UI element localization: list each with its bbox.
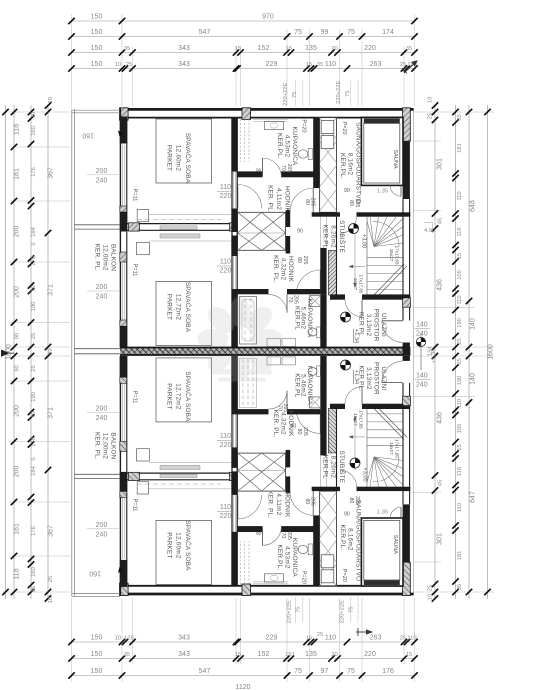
stair-side hatched wall bbox=[328, 251, 336, 296]
balcony bbox=[71, 110, 73, 597]
svg-text:SPAVAĆA SOBA: SPAVAĆA SOBA bbox=[184, 520, 193, 571]
svg-text:90: 90 bbox=[297, 229, 303, 235]
svg-text:220+22E: 220+22E bbox=[283, 82, 289, 106]
svg-text:10: 10 bbox=[31, 112, 37, 118]
left wall double lines bbox=[119, 108, 121, 347]
level diamond marker bbox=[416, 333, 425, 370]
svg-text:97: 97 bbox=[321, 668, 329, 675]
svg-text:10: 10 bbox=[115, 636, 121, 642]
svg-text:KER.PL: KER.PL bbox=[322, 225, 329, 249]
svg-text:135: 135 bbox=[305, 45, 317, 52]
svg-text:135: 135 bbox=[305, 651, 317, 658]
svg-text:25: 25 bbox=[428, 585, 434, 591]
svg-text:90: 90 bbox=[256, 531, 262, 537]
stair stringer bbox=[366, 217, 368, 294]
col2 x=31 : opening segments bbox=[30, 105, 32, 599]
svg-text:343: 343 bbox=[178, 45, 190, 52]
svg-text:220: 220 bbox=[220, 268, 232, 275]
svg-text:10: 10 bbox=[428, 97, 434, 103]
svg-text:P=11: P=11 bbox=[132, 499, 138, 512]
svg-text:P=20: P=20 bbox=[301, 571, 307, 584]
outer top wall bbox=[120, 108, 414, 111]
svg-text:343: 343 bbox=[178, 635, 190, 642]
svg-text:4,53m2: 4,53m2 bbox=[284, 546, 291, 569]
svg-text:174: 174 bbox=[382, 29, 394, 36]
svg-text:220: 220 bbox=[220, 442, 232, 449]
svg-text:15: 15 bbox=[286, 46, 292, 52]
svg-text:110: 110 bbox=[325, 61, 336, 68]
svg-text:17x17,65: 17x17,65 bbox=[359, 410, 364, 429]
right outer insulation line bbox=[413, 108, 415, 596]
row 1 : y=21 bbox=[72, 20, 415, 22]
svg-text:436: 436 bbox=[437, 279, 444, 291]
svg-text:KER.PL.: KER.PL. bbox=[276, 544, 283, 570]
svg-text:150: 150 bbox=[91, 45, 103, 52]
svg-text:181: 181 bbox=[457, 551, 463, 561]
svg-text:140: 140 bbox=[470, 318, 477, 330]
bedroom2 door arc (from corridor1) bbox=[237, 185, 239, 209]
svg-text:90: 90 bbox=[344, 188, 350, 194]
svg-text:80: 80 bbox=[348, 200, 354, 206]
svg-text:10: 10 bbox=[31, 411, 37, 417]
svg-text:KER.PL.: KER.PL. bbox=[339, 524, 346, 550]
svg-text:4,32m2: 4,32m2 bbox=[280, 412, 287, 435]
svg-text:220: 220 bbox=[220, 193, 232, 200]
svg-text:35: 35 bbox=[124, 652, 130, 658]
svg-text:P=11: P=11 bbox=[132, 264, 138, 277]
closet strip x=319.6-336.5 bbox=[320, 118, 337, 213]
svg-text:4,32m2: 4,32m2 bbox=[280, 258, 287, 281]
svg-text:17x17,65: 17x17,65 bbox=[359, 275, 364, 294]
svg-text:205: 205 bbox=[286, 164, 292, 173]
svg-text:648: 648 bbox=[470, 200, 477, 212]
svg-text:15: 15 bbox=[306, 636, 312, 642]
svg-text:8,26m2: 8,26m2 bbox=[330, 225, 337, 248]
walk line + arrows + break line bbox=[354, 233, 356, 286]
svg-text:205: 205 bbox=[302, 256, 308, 265]
col3 x=48 : big segments bbox=[47, 105, 49, 599]
svg-text:16x27: 16x27 bbox=[389, 442, 394, 455]
svg-text:HODNIK: HODNIK bbox=[284, 186, 291, 213]
extension verticals bbox=[71, 598, 73, 682]
svg-text:KER. PL.: KER. PL. bbox=[272, 410, 279, 438]
svg-text:4,53m2: 4,53m2 bbox=[284, 135, 291, 158]
svg-text:160: 160 bbox=[31, 567, 37, 577]
svg-text:301: 301 bbox=[437, 158, 444, 170]
svg-text:263: 263 bbox=[370, 61, 382, 68]
svg-text:17x17,65: 17x17,65 bbox=[395, 439, 400, 458]
svg-text:45: 45 bbox=[438, 218, 444, 224]
svg-text:184: 184 bbox=[31, 465, 37, 475]
sauna door bbox=[390, 185, 401, 196]
svg-text:205: 205 bbox=[310, 198, 316, 207]
bedroom divider wall bbox=[127, 223, 237, 225]
svg-text:1600: 1600 bbox=[488, 344, 495, 360]
svg-text:ULAZNI: ULAZNI bbox=[380, 313, 387, 337]
window glazing lines (left wall) bbox=[121, 145, 123, 207]
svg-text:110: 110 bbox=[220, 504, 231, 511]
svg-text:10: 10 bbox=[428, 594, 434, 600]
svg-text:KER.PL.: KER.PL. bbox=[276, 133, 283, 159]
svg-text:15: 15 bbox=[457, 253, 463, 259]
svg-text:25: 25 bbox=[457, 358, 463, 364]
svg-text:116: 116 bbox=[457, 227, 463, 236]
svg-text:301: 301 bbox=[437, 533, 444, 545]
interior window lines in that wall bbox=[232, 172, 234, 209]
svg-text:16x27: 16x27 bbox=[353, 413, 358, 426]
window leader lines on balcony bbox=[87, 174, 120, 176]
svg-text:5: 5 bbox=[31, 457, 37, 460]
svg-text:20: 20 bbox=[331, 652, 337, 658]
svg-text:436: 436 bbox=[437, 412, 444, 424]
bathroom1 bottom wall bbox=[238, 171, 263, 177]
svg-text:125: 125 bbox=[124, 636, 134, 642]
svg-text:181: 181 bbox=[457, 143, 463, 153]
svg-text:110: 110 bbox=[457, 503, 463, 512]
svg-text:190: 190 bbox=[31, 392, 37, 402]
svg-text:35: 35 bbox=[124, 46, 130, 52]
svg-text:25: 25 bbox=[457, 338, 463, 344]
svg-text:152: 152 bbox=[258, 651, 270, 658]
svg-text:80: 80 bbox=[296, 429, 302, 435]
svg-text:35: 35 bbox=[406, 46, 412, 52]
svg-text:343: 343 bbox=[178, 61, 190, 68]
corridor2 bottom wall bbox=[238, 289, 269, 294]
row 3 : y=52.5 bbox=[72, 52, 415, 54]
svg-text:16x27: 16x27 bbox=[389, 249, 394, 262]
svg-text:10: 10 bbox=[48, 97, 54, 103]
svg-text:+3,00: +3,00 bbox=[361, 234, 367, 248]
svg-text:200: 200 bbox=[14, 226, 21, 238]
svg-text:ULAZNI: ULAZNI bbox=[380, 366, 387, 390]
svg-text:PROSTOR: PROSTOR bbox=[373, 309, 380, 342]
svg-text:367: 367 bbox=[48, 525, 55, 537]
svg-text:25: 25 bbox=[400, 636, 406, 642]
svg-text:P=20: P=20 bbox=[341, 121, 347, 134]
svg-text:105: 105 bbox=[457, 270, 463, 280]
svg-text:90: 90 bbox=[256, 168, 262, 174]
svg-text:1120: 1120 bbox=[235, 684, 250, 690]
sauna cabin bbox=[361, 117, 403, 185]
svg-text:KER. PL.: KER. PL. bbox=[94, 432, 101, 460]
svg-text:371: 371 bbox=[48, 284, 55, 296]
110/220 labels bbox=[220, 184, 232, 520]
svg-text:205: 205 bbox=[302, 427, 308, 436]
svg-text:200: 200 bbox=[96, 284, 108, 291]
stairs: straight treads (lower run, horizontal) bbox=[367, 258, 403, 290]
svg-text:80: 80 bbox=[296, 257, 302, 263]
svg-text:SAUNA/GOSPODARSTVO: SAUNA/GOSPODARSTVO bbox=[355, 500, 362, 582]
svg-text:200: 200 bbox=[14, 405, 21, 417]
svg-text:110: 110 bbox=[457, 295, 463, 304]
bathroom1 door arc bbox=[262, 158, 264, 177]
svg-text:10: 10 bbox=[115, 62, 121, 68]
svg-text:150: 150 bbox=[91, 668, 103, 675]
svg-text:184: 184 bbox=[31, 226, 37, 236]
svg-text:P=20: P=20 bbox=[301, 119, 307, 132]
svg-text:1.35: 1.35 bbox=[377, 189, 388, 195]
svg-text:150: 150 bbox=[91, 14, 103, 21]
bathroom2 right wall bbox=[320, 294, 326, 347]
svg-text:150: 150 bbox=[91, 61, 103, 68]
central shaft with X bbox=[238, 212, 286, 250]
balcony privacy screen bbox=[75, 224, 121, 226]
bathroom1 fixtures bbox=[265, 121, 284, 129]
svg-text:KER.PL: KER.PL bbox=[294, 373, 301, 397]
svg-text:240: 240 bbox=[416, 382, 428, 389]
svg-text:KER.PL.: KER.PL. bbox=[339, 153, 346, 179]
extension horizontals bbox=[3, 111, 70, 113]
svg-text:17x17,65: 17x17,65 bbox=[395, 246, 400, 265]
svg-text:371: 371 bbox=[48, 407, 55, 419]
svg-text:70: 70 bbox=[287, 297, 293, 303]
row 4 : y=68.5 bbox=[72, 68, 415, 70]
svg-text:190: 190 bbox=[457, 376, 463, 386]
svg-text:P=11: P=11 bbox=[132, 391, 138, 404]
svg-text:263: 263 bbox=[370, 635, 382, 642]
row 2 : y=658.5 (mirror of top row3) bbox=[72, 658, 415, 660]
svg-text:240: 240 bbox=[96, 531, 108, 538]
svg-text:647: 647 bbox=[470, 491, 477, 503]
party wall bbox=[120, 348, 410, 355]
svg-text:200: 200 bbox=[14, 466, 21, 478]
svg-text:240: 240 bbox=[416, 331, 428, 338]
svg-text:12,72m2: 12,72m2 bbox=[175, 294, 182, 321]
svg-text:KER. PL.: KER. PL. bbox=[267, 185, 274, 213]
svg-text:110: 110 bbox=[325, 635, 336, 642]
svg-text:205: 205 bbox=[310, 497, 316, 506]
col 1 x=435 : big segments bbox=[434, 105, 436, 599]
svg-text:12,72m2: 12,72m2 bbox=[175, 383, 182, 410]
svg-text:PARKET: PARKET bbox=[166, 532, 173, 558]
svg-text:45: 45 bbox=[438, 480, 444, 486]
svg-text:181: 181 bbox=[14, 523, 21, 535]
mirrored copy for bottom unit bbox=[75, 356, 415, 596]
svg-text:151: 151 bbox=[285, 652, 295, 658]
stairs: winder fan bbox=[367, 217, 403, 247]
svg-text:25: 25 bbox=[31, 333, 37, 339]
svg-text:220+22E: 220+22E bbox=[336, 80, 342, 104]
svg-text:75: 75 bbox=[347, 29, 355, 36]
svg-text:35: 35 bbox=[317, 62, 323, 68]
svg-text:176: 176 bbox=[382, 668, 394, 675]
svg-text:110: 110 bbox=[220, 184, 231, 191]
beds / furniture bedrooms bbox=[156, 119, 212, 183]
col 3 x=469 bbox=[468, 105, 470, 599]
wall x=313.2-319.6 bbox=[313, 118, 319, 188]
svg-text:343: 343 bbox=[178, 651, 190, 658]
svg-text:PARKET: PARKET bbox=[166, 294, 173, 320]
entrance top wall bbox=[330, 294, 345, 299]
svg-text:200: 200 bbox=[14, 286, 21, 298]
svg-text:8,26m2: 8,26m2 bbox=[330, 456, 337, 479]
svg-text:110: 110 bbox=[407, 636, 416, 642]
svg-text:1.35: 1.35 bbox=[377, 509, 388, 515]
svg-text:110: 110 bbox=[457, 399, 463, 408]
svg-text:15: 15 bbox=[406, 652, 412, 658]
svg-text:170: 170 bbox=[31, 437, 37, 447]
svg-text:KUPAONICA: KUPAONICA bbox=[291, 538, 298, 578]
svg-text:25: 25 bbox=[400, 62, 406, 68]
svg-text:PARKET: PARKET bbox=[166, 383, 173, 409]
svg-text:4.90: 4.90 bbox=[424, 228, 435, 234]
svg-text:P=11: P=11 bbox=[132, 189, 138, 202]
svg-text:15: 15 bbox=[235, 652, 241, 658]
wall pillar top-left bbox=[120, 108, 129, 120]
svg-text:205: 205 bbox=[282, 404, 288, 413]
svg-text:176: 176 bbox=[31, 526, 37, 536]
stair room left wall bbox=[320, 176, 326, 209]
svg-text:25: 25 bbox=[31, 365, 37, 371]
door size small labels bbox=[256, 164, 360, 540]
svg-text:118: 118 bbox=[14, 568, 21, 579]
row 2 : y=36.5 bbox=[72, 36, 415, 38]
svg-text:200: 200 bbox=[96, 522, 108, 529]
svg-text:160: 160 bbox=[31, 126, 37, 136]
svg-text:90: 90 bbox=[344, 511, 350, 517]
svg-text:SPAVAĆA SOBA: SPAVAĆA SOBA bbox=[184, 371, 193, 422]
svg-text:SPAVAĆA SOBA: SPAVAĆA SOBA bbox=[184, 133, 193, 184]
svg-text:70: 70 bbox=[280, 533, 286, 539]
svg-text:75: 75 bbox=[294, 29, 302, 36]
svg-text:140: 140 bbox=[470, 373, 477, 385]
svg-text:229: 229 bbox=[266, 635, 278, 642]
svg-text:75: 75 bbox=[292, 92, 298, 98]
svg-text:HODNIK: HODNIK bbox=[284, 491, 291, 518]
svg-text:20: 20 bbox=[331, 46, 337, 52]
entrance door in right wall bbox=[402, 199, 404, 321]
svg-text:8,16m2: 8,16m2 bbox=[347, 153, 354, 176]
svg-text:KER. PL.: KER. PL. bbox=[267, 490, 274, 518]
svg-text:220: 220 bbox=[364, 45, 376, 52]
svg-text:190: 190 bbox=[457, 318, 463, 328]
svg-text:+3,00: +3,00 bbox=[362, 467, 368, 481]
svg-text:110: 110 bbox=[220, 433, 231, 440]
svg-text:70: 70 bbox=[277, 405, 283, 411]
svg-text:205: 205 bbox=[354, 199, 360, 208]
svg-text:170: 170 bbox=[31, 256, 37, 266]
svg-text:35: 35 bbox=[457, 584, 463, 590]
svg-text:116: 116 bbox=[457, 467, 463, 476]
svg-text:SAUNA: SAUNA bbox=[392, 535, 398, 555]
svg-text:+1,34: +1,34 bbox=[353, 370, 359, 384]
svg-text:547: 547 bbox=[199, 668, 211, 675]
window sill below top wall (bathroom) bbox=[253, 119, 288, 121]
svg-text:75: 75 bbox=[349, 607, 355, 613]
svg-text:SAUNA/GOSPODARSTVO: SAUNA/GOSPODARSTVO bbox=[355, 122, 362, 204]
svg-text:150: 150 bbox=[91, 29, 103, 36]
extension verticals bbox=[71, 14, 73, 108]
svg-text:25: 25 bbox=[317, 632, 323, 638]
svg-text:25: 25 bbox=[48, 576, 54, 582]
central vertical wall x=231.5-237.5 bbox=[231, 118, 233, 348]
svg-text:90: 90 bbox=[15, 365, 21, 371]
svg-text:15: 15 bbox=[306, 62, 312, 68]
watermark bbox=[198, 297, 283, 382]
svg-text:220: 220 bbox=[364, 651, 376, 658]
svg-text:4,11m2: 4,11m2 bbox=[275, 493, 282, 515]
svg-text:90: 90 bbox=[15, 333, 21, 339]
svg-text:140: 140 bbox=[416, 373, 428, 380]
svg-text:99: 99 bbox=[321, 29, 329, 36]
svg-text:181: 181 bbox=[14, 168, 21, 180]
svg-text:75: 75 bbox=[294, 668, 302, 675]
wall pillar top-mid bbox=[242, 108, 251, 120]
svg-text:3,13m2: 3,13m2 bbox=[365, 367, 372, 390]
svg-text:KUPAONICA: KUPAONICA bbox=[291, 127, 298, 167]
svg-text:15: 15 bbox=[457, 444, 463, 450]
svg-text:10: 10 bbox=[48, 597, 54, 603]
svg-text:BALKON: BALKON bbox=[110, 432, 117, 459]
svg-text:SAUNA: SAUNA bbox=[392, 149, 398, 169]
svg-text:5: 5 bbox=[31, 242, 37, 245]
svg-text:12,00m2: 12,00m2 bbox=[102, 244, 109, 271]
left edge arrow marker bbox=[1, 350, 10, 357]
svg-text:220: 220 bbox=[220, 513, 232, 520]
svg-text:4,11m2: 4,11m2 bbox=[275, 188, 282, 210]
arrow bottom bbox=[356, 628, 372, 636]
svg-text:KER. PL.: KER. PL. bbox=[94, 244, 101, 272]
svg-text:8,16m2: 8,16m2 bbox=[347, 528, 354, 551]
left wall dark blocks bbox=[120, 117, 127, 144]
svg-text:150: 150 bbox=[91, 635, 103, 642]
svg-text:70: 70 bbox=[280, 165, 286, 171]
svg-text:12,60m2: 12,60m2 bbox=[175, 145, 182, 172]
svg-text:220+22E: 220+22E bbox=[287, 600, 293, 624]
svg-text:KER.PL: KER.PL bbox=[294, 306, 301, 330]
svg-text:PARKET: PARKET bbox=[166, 145, 173, 171]
svg-text:110: 110 bbox=[220, 259, 231, 266]
svg-text:176: 176 bbox=[31, 167, 37, 177]
svg-text:75: 75 bbox=[345, 91, 351, 97]
svg-text:240: 240 bbox=[96, 415, 108, 422]
svg-text:205: 205 bbox=[293, 295, 299, 304]
svg-text:15: 15 bbox=[235, 46, 241, 52]
svg-text:152: 152 bbox=[258, 45, 270, 52]
bathroom2 door arc bbox=[286, 294, 288, 312]
col1 x=14 : room segments bbox=[13, 105, 15, 599]
svg-text:80: 80 bbox=[304, 199, 310, 205]
svg-text:12,00m2: 12,00m2 bbox=[102, 433, 109, 460]
col 2 x=455.5 : small segments bbox=[455, 105, 457, 599]
bathroom3' patch: dashed closet instead of tub bbox=[238, 358, 257, 408]
svg-text:547: 547 bbox=[199, 29, 211, 36]
svg-text:25: 25 bbox=[126, 62, 132, 68]
svg-text:240: 240 bbox=[96, 178, 108, 185]
svg-text:205: 205 bbox=[286, 531, 292, 540]
svg-text:25: 25 bbox=[428, 113, 434, 119]
svg-text:STUBIŠTE: STUBIŠTE bbox=[338, 450, 347, 483]
svg-text:80: 80 bbox=[304, 499, 310, 505]
svg-text:229: 229 bbox=[266, 61, 278, 68]
svg-text:16x27: 16x27 bbox=[353, 278, 358, 291]
wall pillar top-right (sauna corner) bbox=[403, 108, 411, 141]
svg-text:200: 200 bbox=[96, 406, 108, 413]
svg-text:160: 160 bbox=[89, 570, 101, 577]
gospodarstvo bottom wall bbox=[312, 212, 340, 216]
svg-text:20: 20 bbox=[48, 348, 54, 354]
svg-text:STUBIŠTE: STUBIŠTE bbox=[338, 220, 347, 253]
svg-text:KER. PL.: KER. PL. bbox=[272, 255, 279, 283]
svg-text:HODNIK: HODNIK bbox=[287, 256, 294, 283]
svg-text:+1,34: +1,34 bbox=[431, 348, 437, 363]
row 3 : y=675.5 (mirror of top row2) bbox=[72, 675, 415, 677]
svg-text:110: 110 bbox=[457, 191, 463, 200]
svg-text:140: 140 bbox=[416, 322, 428, 329]
svg-text:160: 160 bbox=[82, 132, 94, 139]
svg-text:12,60m2: 12,60m2 bbox=[175, 532, 182, 559]
svg-text:200: 200 bbox=[96, 168, 108, 175]
